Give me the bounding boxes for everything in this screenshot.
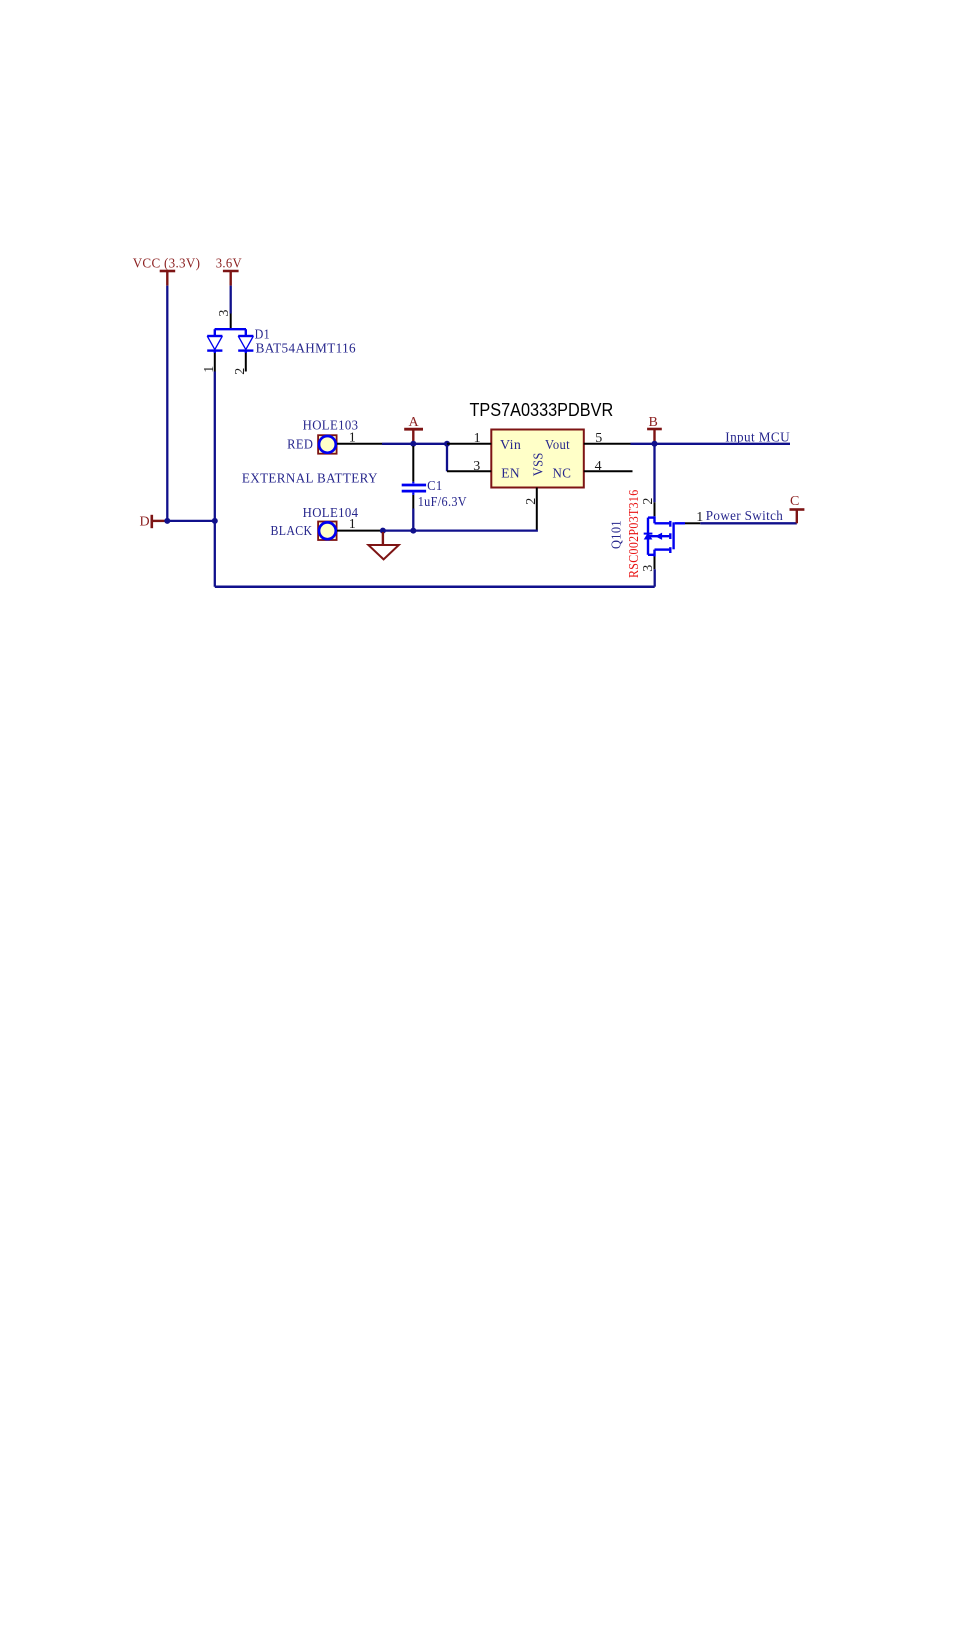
- port D: [140, 515, 168, 530]
- svg-text:Input MCU: Input MCU: [725, 431, 790, 446]
- port C: [790, 494, 805, 523]
- wire Vout to B node: [631, 443, 655, 445]
- wire EN branch vertical: [446, 444, 448, 472]
- capacitor C1: [402, 446, 426, 509]
- svg-text:D1: D1: [255, 327, 270, 342]
- power symbol VCC (3.3V): [133, 257, 201, 286]
- svg-text:Q101: Q101: [610, 520, 625, 549]
- svg-text:2: 2: [524, 498, 539, 505]
- node D junction (VCC line): [164, 518, 170, 524]
- svg-text:3: 3: [217, 310, 232, 317]
- diode D1 dual BAT54AHMT116: [207, 328, 253, 353]
- wire Input MCU: [655, 443, 791, 445]
- node A junction: [410, 441, 416, 447]
- svg-text:EN: EN: [501, 467, 520, 482]
- transistor Q101 P-MOSFET: [644, 516, 685, 556]
- wire gate to C port: [700, 522, 797, 524]
- pin 3 lead of Q101: [654, 557, 656, 570]
- power symbol 3.6V: [216, 257, 242, 286]
- svg-text:4: 4: [595, 459, 602, 474]
- wire C1 to ground rail: [412, 509, 414, 531]
- wire B to Q101 drain: [653, 444, 655, 503]
- svg-text:1: 1: [349, 431, 356, 446]
- wire VCC vertical: [166, 286, 168, 521]
- svg-text:Vin: Vin: [500, 438, 521, 453]
- pin 3 lead of U1 (EN): [447, 470, 491, 472]
- connector HOLE104: [271, 506, 359, 540]
- pin 2 lead of D1: [245, 353, 247, 372]
- svg-text:2: 2: [233, 368, 248, 375]
- svg-text:RSC002P03T316: RSC002P03T316: [627, 490, 642, 579]
- svg-text:BAT54AHMT116: BAT54AHMT116: [256, 341, 356, 356]
- connector HOLE103: [287, 419, 358, 454]
- pin 5 lead of U1 (Vout): [584, 443, 631, 445]
- wire D1 pin1 to bottom rail: [214, 372, 216, 587]
- svg-text:1: 1: [474, 431, 481, 446]
- svg-text:1: 1: [349, 517, 356, 532]
- svg-text:Power Switch: Power Switch: [706, 509, 783, 524]
- pin 1 lead of Q101 (gate): [685, 522, 700, 524]
- IC U1 TPS7A0333PDBVR: [470, 399, 614, 487]
- pin 1 lead of U1 (Vin): [447, 443, 491, 445]
- pin 1 lead of HOLE104: [337, 530, 383, 532]
- node junction on diode branch: [212, 518, 218, 524]
- svg-text:TPS7A0333PDBVR: TPS7A0333PDBVR: [470, 399, 614, 420]
- svg-text:BLACK: BLACK: [271, 524, 313, 539]
- pin 1 lead of D1: [214, 353, 216, 372]
- pin 2 lead of Q101: [654, 502, 656, 516]
- pin 4 lead of U1 (NC): [584, 470, 633, 472]
- port B: [647, 415, 662, 444]
- wire 3.6V stub: [230, 286, 232, 314]
- pin 3 lead of D1: [230, 314, 232, 329]
- wire D horizontal: [167, 520, 215, 522]
- svg-text:2: 2: [641, 498, 656, 505]
- wire ground rail: [383, 529, 538, 531]
- svg-text:EXTERNAL BATTERY: EXTERNAL BATTERY: [242, 471, 378, 486]
- node B junction: [652, 441, 658, 447]
- wire HOLE103 to A node: [382, 443, 447, 445]
- node junction at Vin branch: [444, 441, 450, 447]
- svg-text:5: 5: [595, 431, 602, 446]
- svg-text:C1: C1: [427, 479, 443, 494]
- svg-text:VSS: VSS: [532, 452, 547, 476]
- svg-text:VCC (3.3V): VCC (3.3V): [133, 257, 201, 272]
- svg-text:NC: NC: [553, 467, 572, 482]
- svg-text:3.6V: 3.6V: [216, 257, 242, 272]
- svg-text:C: C: [790, 494, 800, 509]
- port A: [404, 415, 423, 444]
- node C1 bottom junction: [410, 528, 416, 534]
- node ground junction: [380, 528, 386, 534]
- svg-text:3: 3: [473, 459, 480, 474]
- wire Q101 source to bottom rail: [654, 569, 656, 586]
- svg-text:Vout: Vout: [545, 438, 570, 453]
- svg-text:RED: RED: [287, 438, 313, 453]
- svg-text:D: D: [140, 515, 150, 530]
- ground: [368, 532, 398, 559]
- pin 1 lead of HOLE103: [337, 443, 382, 445]
- svg-text:1uF/6.3V: 1uF/6.3V: [418, 495, 467, 510]
- wire bottom rail: [215, 585, 655, 588]
- pin 2 lead of U1 (VSS): [536, 488, 538, 530]
